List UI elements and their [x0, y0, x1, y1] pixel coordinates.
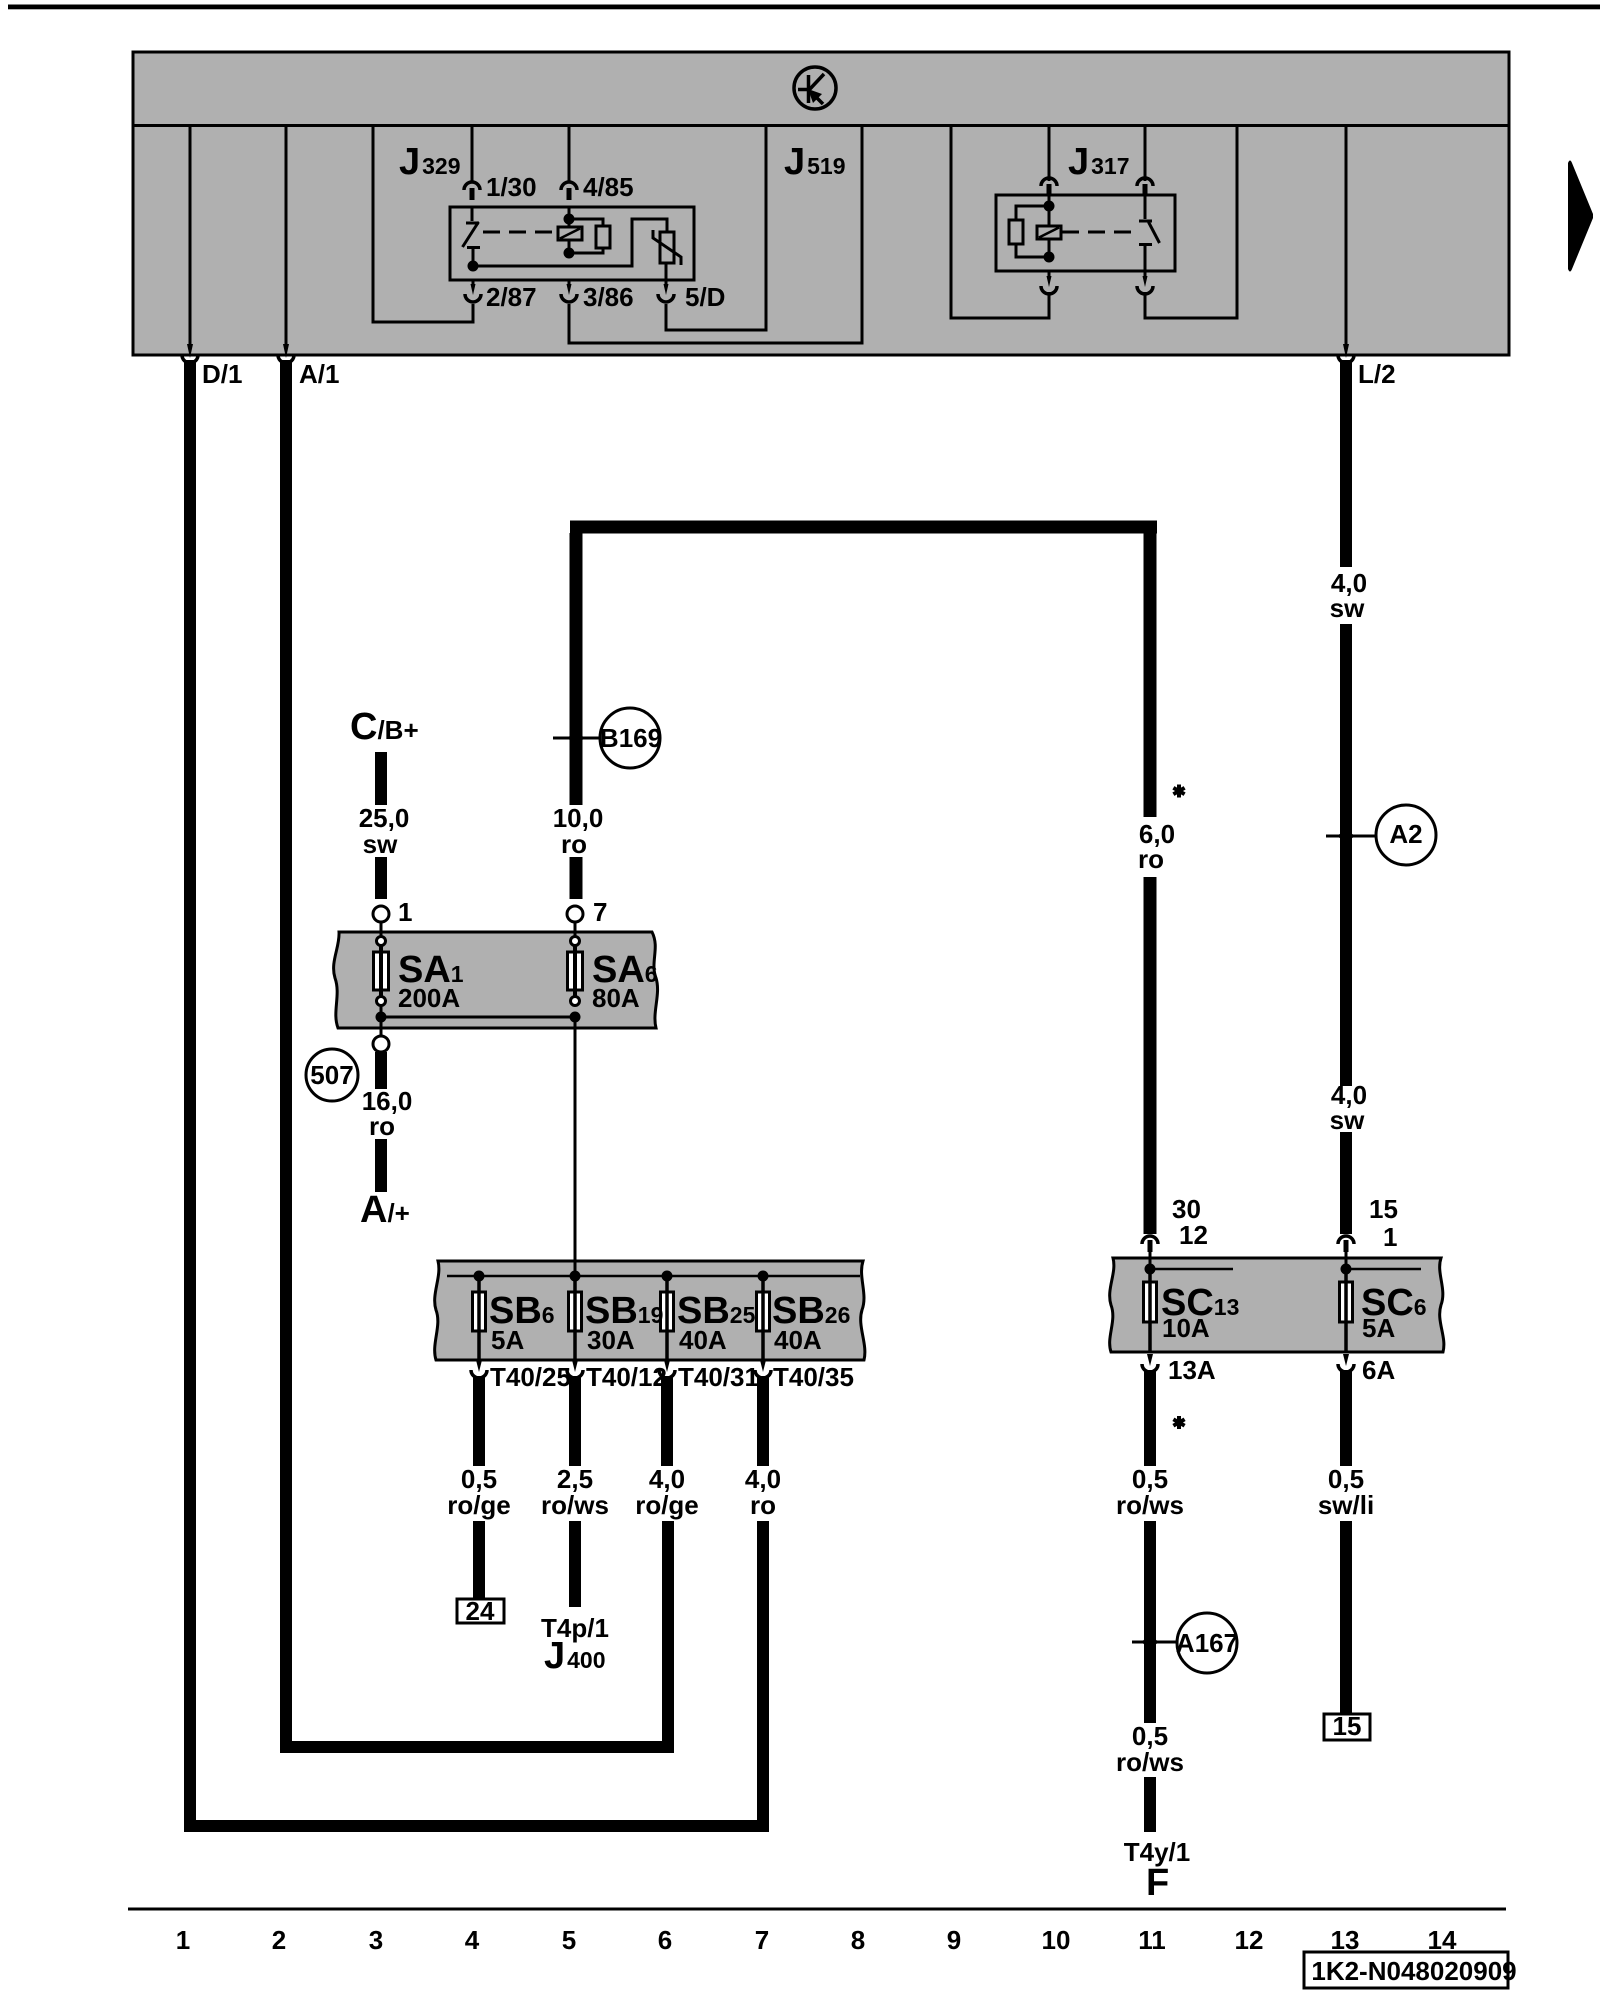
fuse SB6 5A [473, 1292, 486, 1331]
svg-text:15: 15 [1369, 1194, 1398, 1224]
J317 bottom-left terminal [1041, 271, 1057, 294]
J317 coil suppression resistor [1009, 206, 1049, 257]
wire to J317 right pin [1144, 127, 1147, 181]
fuse panel SA (wavy ends) [334, 932, 658, 1028]
J317 switch contact [1139, 195, 1160, 271]
baseline rule [128, 1908, 1506, 1911]
wire to J329 pin 2/87 [373, 127, 473, 322]
svg-text:2: 2 [272, 1925, 286, 1955]
relay J317 [0, 0, 1, 1]
svg-text:T40/12: T40/12 [586, 1362, 667, 1392]
svg-text:ro: ro [369, 1111, 395, 1141]
svg-text:ro/ge: ro/ge [635, 1490, 699, 1520]
asterisk bottom [1173, 1416, 1184, 1429]
svg-text:507: 507 [310, 1060, 353, 1090]
wire 16,0 ro stubs [375, 1052, 387, 1089]
SC13 feed node [1150, 1268, 1233, 1271]
J329 output node wiring [468, 219, 668, 272]
svg-text:T40/25: T40/25 [490, 1362, 571, 1392]
svg-text:F: F [1146, 1862, 1169, 1904]
svg-text:9: 9 [947, 1925, 961, 1955]
svg-text:40A: 40A [679, 1325, 727, 1355]
page top rule [8, 5, 1600, 10]
asterisk top [1173, 785, 1184, 798]
wire D/1 inside band [189, 127, 192, 348]
svg-text:13A: 13A [1168, 1355, 1216, 1385]
svg-text:A/+: A/+ [360, 1189, 410, 1231]
svg-text:ro: ro [561, 829, 587, 859]
wire from J329 pin 3/86 [569, 127, 862, 343]
fuse SB26 40A [757, 1292, 770, 1331]
wire A/1 thick run to SB25 branch [286, 360, 668, 1747]
svg-text:ro: ro [750, 1490, 776, 1520]
svg-text:ro: ro [1138, 844, 1164, 874]
wire L/2 inside band [1345, 127, 1348, 348]
fuse SA6 80A [568, 952, 583, 990]
wire A/1 inside band [285, 127, 288, 348]
fuse SC13 10A [1144, 1282, 1157, 1322]
terminal box 15 [1324, 1714, 1370, 1740]
node 507 [306, 1049, 358, 1101]
svg-text:12: 12 [1235, 1925, 1264, 1955]
central electrics box J519 (gray band) [133, 52, 1509, 355]
svg-text:L/2: L/2 [1358, 359, 1396, 389]
J329 terminal 2/87 [465, 280, 481, 302]
fuse panel SB (wavy ends) [435, 1261, 865, 1360]
svg-text:sw: sw [1330, 1105, 1365, 1135]
wire to J329 pin 1/30 [471, 127, 474, 183]
svg-text:1: 1 [176, 1925, 190, 1955]
svg-text:A167: A167 [1176, 1628, 1238, 1658]
svg-text:5A: 5A [1362, 1313, 1395, 1343]
terminal 1 circle [373, 906, 389, 922]
J329 relay coil [558, 207, 582, 259]
svg-text:3/86: 3/86 [583, 282, 634, 312]
J317 top-right terminal [1137, 178, 1153, 196]
SB26 output connector T40/35 [760, 1360, 766, 1372]
svg-text:1K2-N048020909: 1K2-N048020909 [1311, 1956, 1516, 1986]
svg-text:2/87: 2/87 [486, 282, 537, 312]
svg-text:30A: 30A [587, 1325, 635, 1355]
wire 4,0 sw middle segment [1340, 624, 1352, 1086]
wire from J329 pin 5/D [666, 127, 766, 330]
J329 switch contact [463, 207, 481, 264]
svg-text:D/1: D/1 [202, 359, 242, 389]
svg-text:ro/ge: ro/ge [447, 1490, 511, 1520]
svg-text:4/85: 4/85 [583, 172, 634, 202]
svg-text:6A: 6A [1362, 1355, 1395, 1385]
main wires [182, 344, 1370, 1832]
SA internal rail [381, 1016, 575, 1019]
wire 4,0 sw upper segment [1340, 360, 1352, 567]
wire D/1 thick run to SB26 branch [190, 360, 763, 1826]
connector D/1 at band exit [187, 344, 193, 358]
svg-text:ro/ws: ro/ws [1116, 1747, 1184, 1777]
fuse panel SC (wavy ends) [1110, 1258, 1444, 1352]
J329 coil suppression resistor [569, 219, 610, 253]
svg-text:11: 11 [1138, 1925, 1166, 1955]
SB25 output connector T40/31 [664, 1360, 670, 1372]
svg-text:B169: B169 [600, 723, 662, 753]
svg-text:7: 7 [593, 897, 607, 927]
wire 4,0 sw lower segment [1340, 1132, 1352, 1234]
svg-text:1/30: 1/30 [486, 172, 537, 202]
J329 terminal 5/D [658, 280, 674, 302]
dashboard symbol (circled K arrow) [794, 67, 836, 109]
svg-text:4: 4 [465, 1925, 480, 1955]
svg-text:sw: sw [1330, 593, 1365, 623]
svg-text:80A: 80A [592, 983, 640, 1013]
SA1 lower terminal circle [373, 1036, 389, 1052]
fuse SB19 30A [569, 1292, 582, 1331]
J329 PTC thermistor [653, 230, 681, 280]
link SA6 to SB rail [574, 1017, 577, 1273]
SB internal rail [447, 1275, 860, 1278]
svg-text:200A: 200A [398, 983, 460, 1013]
connector A/1 at band exit [283, 344, 289, 358]
wire C/B+ stub [375, 752, 387, 805]
relay J317 [996, 195, 1175, 271]
fuse SA1 200A [374, 952, 389, 990]
fuses [374, 937, 1422, 1361]
J329 terminal 4/85 [561, 182, 577, 200]
fuse SC6 5A [1340, 1282, 1353, 1322]
svg-text:C/B+: C/B+ [350, 706, 419, 748]
svg-text:5/D: 5/D [685, 282, 725, 312]
svg-text:8: 8 [851, 1925, 865, 1955]
terminal 30 connector at SC panel [1142, 1236, 1158, 1244]
node A167 [1132, 1613, 1237, 1673]
svg-text:ro/ws: ro/ws [541, 1490, 609, 1520]
node B169 [553, 708, 660, 768]
svg-text:A2: A2 [1389, 819, 1422, 849]
svg-text:3: 3 [369, 1925, 383, 1955]
svg-text:5: 5 [562, 1925, 576, 1955]
J317 top-left terminal [1041, 178, 1057, 196]
J317 mechanical link (dashed) [1062, 231, 1138, 234]
svg-text:10A: 10A [1162, 1313, 1210, 1343]
wire from J317 bottom-left pin [951, 127, 1049, 318]
band internals [190, 127, 1346, 348]
J317 bottom-right terminal [1137, 271, 1153, 294]
svg-text:12: 12 [1179, 1220, 1208, 1250]
wire to J329 pin 4/85 [568, 127, 571, 183]
svg-text:40A: 40A [774, 1325, 822, 1355]
J329 terminal 3/86 [561, 280, 577, 302]
svg-text:ro/ws: ro/ws [1116, 1490, 1184, 1520]
J329 mechanical link (dashed) [483, 231, 556, 234]
terminal 7 circle [567, 906, 583, 922]
svg-text:1: 1 [1383, 1222, 1397, 1252]
svg-text:sw/li: sw/li [1318, 1490, 1374, 1520]
svg-text:15: 15 [1333, 1711, 1362, 1741]
wire 6,0 ro vertical [1144, 521, 1157, 817]
svg-text:24: 24 [466, 1596, 495, 1626]
J317 relay coil [1037, 196, 1061, 263]
relay J329 [450, 207, 694, 280]
wire to J317 left pin [1048, 127, 1051, 181]
svg-text:T40/31: T40/31 [678, 1362, 759, 1392]
svg-text:6: 6 [658, 1925, 672, 1955]
fuse SB25 40A [661, 1292, 674, 1331]
panels [334, 932, 1444, 1360]
svg-text:7: 7 [755, 1925, 769, 1955]
next-page arrow [1568, 161, 1593, 272]
bottom grid [128, 1909, 1517, 1988]
J329 terminal 1/30 [464, 182, 480, 200]
SC6 feed node [1346, 1268, 1421, 1271]
connector L/2 at band exit [1343, 344, 1349, 358]
diagram code box [1304, 1952, 1508, 1988]
node A2 [1326, 805, 1436, 865]
wire 10,0 ro with bend to SA6 [570, 521, 1157, 534]
svg-text:5A: 5A [491, 1325, 524, 1355]
terminal box 24 [457, 1599, 504, 1623]
svg-text:A/1: A/1 [299, 359, 339, 389]
svg-text:T40/35: T40/35 [773, 1362, 854, 1392]
terminal 15 connector at SC panel [1338, 1236, 1354, 1244]
SC6 output connector 6A [1343, 1354, 1349, 1366]
SC13 output connector 13A [1147, 1354, 1153, 1366]
svg-text:sw: sw [363, 829, 398, 859]
SB19 output connector T40/12 [572, 1360, 578, 1372]
svg-text:10: 10 [1042, 1925, 1071, 1955]
SB6 output connector T40/25 [476, 1360, 482, 1372]
band divider line [133, 124, 1509, 127]
svg-text:1: 1 [398, 897, 412, 927]
wire from J317 bottom-right pin [1145, 127, 1237, 318]
